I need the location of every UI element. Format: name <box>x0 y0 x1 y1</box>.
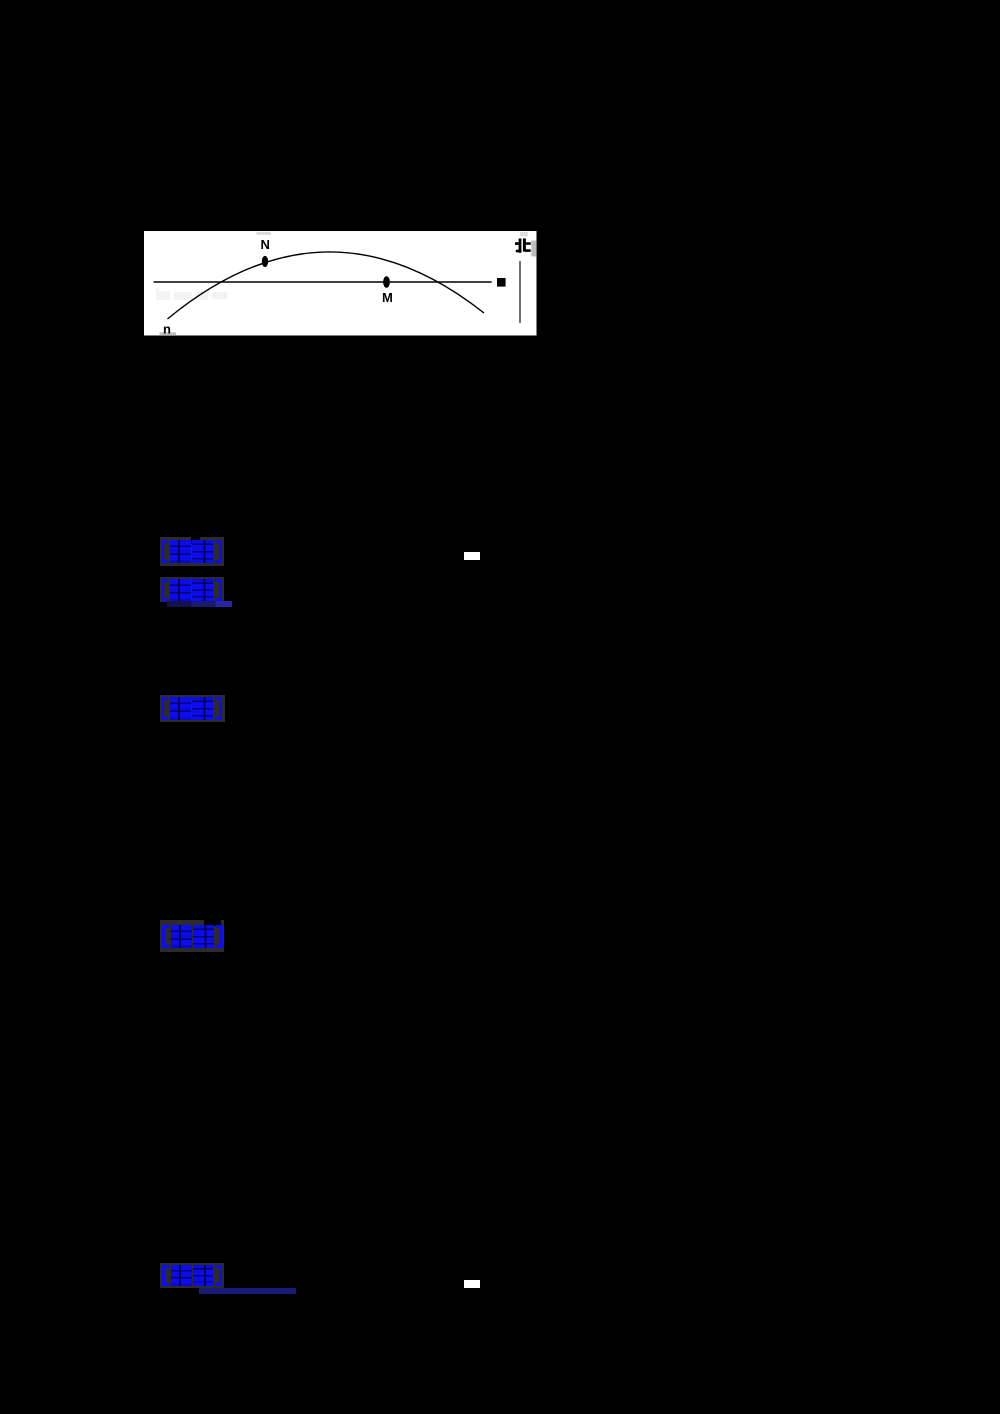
point N dot <box>262 256 268 267</box>
navy underline under fenxi row <box>167 601 232 607</box>
label block dianping background <box>160 920 224 952</box>
notch on kaodian 1 box <box>191 537 200 544</box>
horizon line m <box>154 281 492 283</box>
notch on dianping box <box>204 920 221 926</box>
bei (north) character strokes <box>515 238 531 252</box>
point M dot <box>383 276 390 288</box>
label m (solid square) <box>497 278 506 287</box>
svg-text:N: N <box>261 237 270 252</box>
sun path curve n <box>168 252 485 319</box>
label jieda (blue) <box>161 697 223 720</box>
white background of figure <box>144 231 537 336</box>
label block jieda background <box>160 695 225 722</box>
label block kaodian 1 background <box>160 537 224 566</box>
svg-text:M: M <box>382 290 393 305</box>
label kaodian 1 (blue) <box>161 540 223 563</box>
label block fenxi background <box>160 577 225 602</box>
vertical north line <box>519 261 521 323</box>
white dash 1 <box>464 552 480 561</box>
label n underline smudge <box>160 332 177 335</box>
diagram figure (sun path diagram) <box>144 231 537 336</box>
gray smudge above bei <box>520 232 528 237</box>
label kaodian 2 (blue) <box>162 1265 222 1287</box>
label dianping (blue) <box>162 925 223 948</box>
label fenxi (blue) <box>161 579 223 601</box>
label block kaodian 2 background <box>160 1263 225 1288</box>
gray smudge right of bei <box>531 241 536 257</box>
gray smudge above N <box>257 232 271 235</box>
faint watermark <box>156 288 227 300</box>
svg-text:n: n <box>163 322 171 336</box>
white dash 2 <box>464 1280 480 1288</box>
navy underline under kaodian 2 <box>199 1288 296 1294</box>
